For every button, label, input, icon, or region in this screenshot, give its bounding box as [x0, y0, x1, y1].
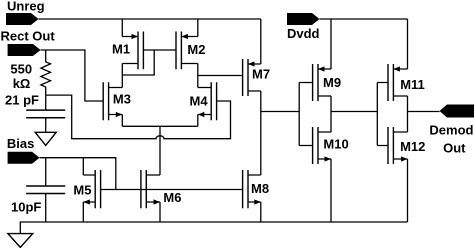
transistor M11 [377, 64, 424, 101]
wire Bias line [40, 158, 116, 190]
ground at rail left end [8, 234, 33, 248]
svg-text:M1: M1 [112, 41, 130, 56]
wire M2 source riser [197, 19, 199, 37]
svg-text:M7: M7 [252, 67, 270, 82]
svg-text:Dvdd: Dvdd [287, 26, 320, 41]
transistor M3 [103, 82, 131, 120]
wire reference node to M4 gate (with hop) [46, 95, 231, 139]
transistor M7 [243, 59, 270, 96]
svg-text:M2: M2 [187, 42, 205, 57]
wire Dvdd rail [320, 18, 408, 20]
wire inverter1 gate vertical [298, 83, 300, 146]
wire inverter2 output node [408, 96, 440, 132]
svg-text:M6: M6 [163, 190, 181, 205]
resistor R1 550k [10, 50, 50, 110]
svg-text:M4: M4 [190, 94, 209, 109]
wire inverter1 output node [331, 96, 377, 132]
wire stage2 output to inverter1 input [261, 111, 299, 113]
transistor M8 [243, 170, 269, 208]
transistor M2 [176, 32, 205, 70]
transistor M5 [73, 170, 100, 208]
wire M9 source riser [330, 19, 332, 69]
wire M5 drain riser [82, 158, 84, 175]
svg-text:M12: M12 [400, 139, 425, 154]
wire M1 drain / M3 drain / diode connection [122, 50, 154, 88]
wire M2 drain / M4 drain / to M7 gate [198, 64, 243, 88]
wire Unreg rail [39, 18, 261, 20]
svg-text:21 pF: 21 pF [5, 93, 39, 108]
port Dvdd [287, 13, 320, 41]
transistor M1 [112, 32, 143, 70]
svg-text:M10: M10 [323, 137, 348, 152]
ground under C1 [35, 132, 56, 145]
svg-text:kΩ: kΩ [13, 76, 31, 91]
wire M10 source drop [330, 159, 332, 222]
wire inverter2 gate vertical [376, 83, 378, 146]
wire M7 source riser [260, 19, 262, 64]
port Unreg [6, 0, 45, 25]
wire M11 source riser [407, 19, 409, 69]
port Demod Out [429, 105, 474, 156]
wire Rect Out to M3 gate [41, 50, 104, 101]
capacitor C2 10pF [11, 158, 65, 222]
svg-text:M9: M9 [323, 75, 341, 90]
wire M5 source drop [82, 202, 84, 222]
wire M6 source drop [159, 202, 161, 222]
svg-text:M3: M3 [113, 91, 131, 106]
transistor M9 [299, 64, 341, 101]
wire diff pair tail [122, 115, 198, 176]
svg-text:Bias: Bias [7, 136, 34, 151]
wire M1/M2 gate wire [143, 49, 176, 51]
svg-text:10pF: 10pF [11, 199, 41, 214]
wire ground rail [20, 222, 407, 234]
svg-text:Out: Out [443, 141, 466, 156]
transistor M10 [299, 127, 348, 164]
svg-text:Unreg: Unreg [7, 0, 45, 14]
svg-text:550: 550 [10, 62, 32, 77]
port Rect Out [1, 28, 56, 56]
svg-text:M8: M8 [251, 181, 269, 196]
svg-text:Rect Out: Rect Out [1, 28, 56, 43]
wire M1 source riser [121, 19, 123, 37]
capacitor C1 21pF [5, 93, 65, 133]
svg-text:M5: M5 [73, 183, 91, 198]
transistor M12 [377, 127, 425, 164]
wire M8 source drop [260, 202, 262, 222]
svg-text:M11: M11 [400, 77, 425, 92]
port Bias [7, 136, 40, 164]
transistor M6 [141, 170, 182, 208]
svg-text:Demod: Demod [429, 123, 473, 138]
wire M7 drain to M8 drain [260, 91, 262, 175]
wire M5/M6/M8 gate line [101, 189, 243, 191]
wire M12 source drop [407, 159, 409, 222]
transistor M4 [190, 82, 217, 120]
